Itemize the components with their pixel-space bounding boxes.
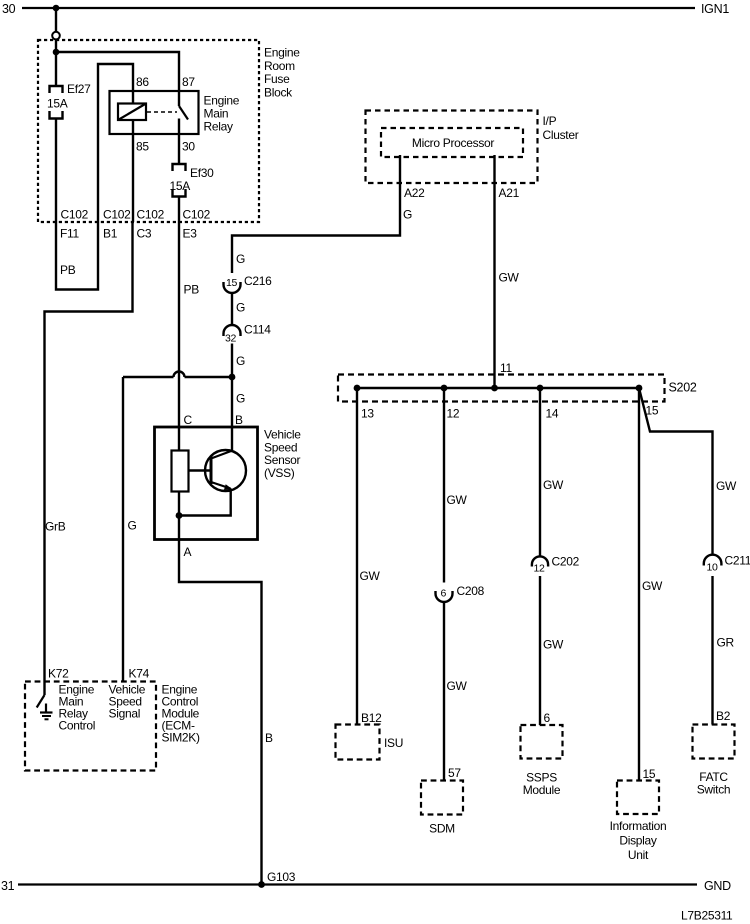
wire GW: splice 12 to C208 bbox=[443, 388, 445, 583]
svg-text:C: C bbox=[184, 413, 193, 427]
Engine Room Fuse Block dashed box bbox=[38, 40, 259, 222]
wire: relay pin 30 to fuse Ef30 bbox=[178, 134, 180, 164]
svg-text:Relay: Relay bbox=[204, 120, 233, 134]
svg-text:GW: GW bbox=[360, 569, 381, 583]
connector C102 pin F11 label bbox=[60, 208, 89, 241]
connector C102 pin E3 label bbox=[183, 208, 211, 241]
svg-text:Room: Room bbox=[264, 59, 295, 73]
wire: relay coil pin 85 to C102 C3 bbox=[132, 120, 134, 222]
FATC switch box bbox=[693, 725, 735, 759]
connector C102 pin C3 label bbox=[137, 208, 165, 241]
svg-text:C114: C114 bbox=[244, 323, 271, 337]
svg-text:GW: GW bbox=[447, 679, 468, 693]
svg-text:30: 30 bbox=[2, 2, 16, 16]
svg-text:Engine: Engine bbox=[204, 94, 240, 108]
svg-text:GW: GW bbox=[642, 579, 663, 593]
wire G: micro processor A22 down-left toward VSS bbox=[232, 155, 400, 273]
svg-text:(VSS): (VSS) bbox=[264, 466, 295, 480]
svg-text:15: 15 bbox=[646, 404, 659, 418]
svg-text:G: G bbox=[236, 392, 245, 406]
wire GW: micro processor A21 to splice S202 bbox=[493, 155, 495, 388]
svg-text:G: G bbox=[128, 519, 137, 533]
relay coil bbox=[118, 104, 146, 121]
splice junction 14 bbox=[537, 385, 544, 392]
svg-text:31: 31 bbox=[1, 879, 15, 893]
svg-text:30: 30 bbox=[182, 140, 195, 154]
svg-text:GW: GW bbox=[716, 479, 737, 493]
wire G: C114 to junction bbox=[231, 344, 233, 378]
wire: pin 86 feed bar from C102 B1 bbox=[98, 64, 133, 222]
svg-text:E3: E3 bbox=[183, 227, 198, 241]
ECM Vehicle Speed Signal label bbox=[109, 683, 146, 721]
svg-text:C216: C216 bbox=[244, 274, 272, 288]
connector bullet at fuse block entry bbox=[52, 32, 60, 40]
junction node in VSS bbox=[176, 512, 183, 519]
splice junction 12 bbox=[441, 385, 448, 392]
svg-text:Display: Display bbox=[619, 834, 657, 848]
svg-text:G: G bbox=[403, 208, 412, 222]
svg-text:B2: B2 bbox=[716, 709, 731, 723]
wire G: junction to ECM K74 with hop over PB bbox=[123, 372, 232, 682]
svg-text:10: 10 bbox=[707, 562, 719, 574]
svg-text:85: 85 bbox=[136, 140, 149, 154]
svg-text:Fuse: Fuse bbox=[264, 72, 290, 86]
splice junction 13 bbox=[354, 385, 361, 392]
splice bus wire bbox=[357, 387, 639, 390]
splice S202 dashed box bbox=[338, 375, 665, 402]
ECM Engine Main Relay Control label bbox=[59, 683, 96, 733]
svg-text:A21: A21 bbox=[499, 186, 520, 200]
svg-text:Main: Main bbox=[204, 107, 229, 121]
VSS name label bbox=[264, 428, 301, 480]
svg-text:PB: PB bbox=[60, 263, 76, 277]
svg-text:Engine: Engine bbox=[264, 46, 300, 60]
wire A: VSS out to ground rail bbox=[179, 516, 262, 885]
svg-text:13: 13 bbox=[361, 407, 374, 421]
fuse Ef30 bbox=[173, 164, 186, 197]
svg-text:GW: GW bbox=[447, 493, 468, 507]
resistor in VSS bbox=[172, 451, 189, 492]
svg-text:Signal: Signal bbox=[109, 707, 141, 721]
Engine Room Fuse Block label bbox=[264, 46, 300, 100]
svg-text:F11: F11 bbox=[60, 227, 80, 241]
svg-text:Module: Module bbox=[523, 783, 561, 797]
svg-text:C102: C102 bbox=[183, 208, 211, 222]
svg-text:57: 57 bbox=[448, 766, 461, 780]
ECM name label bbox=[162, 683, 201, 745]
wire: resistor to emitter junction bbox=[178, 492, 180, 516]
svg-text:Switch: Switch bbox=[697, 783, 731, 797]
svg-text:B: B bbox=[235, 413, 243, 427]
wire G: junction to VSS pin B bbox=[231, 377, 233, 451]
svg-text:C211: C211 bbox=[725, 554, 750, 568]
Vehicle Speed Sensor box bbox=[155, 427, 258, 540]
FATC switch label bbox=[697, 770, 731, 797]
splice junction 15 bbox=[636, 385, 643, 392]
relay name label bbox=[204, 94, 240, 134]
junction node inside fuse block bbox=[53, 49, 60, 56]
ECM internal switch to ground bbox=[37, 682, 45, 708]
svg-text:B1: B1 bbox=[103, 227, 118, 241]
wire PB: C102 E3 to VSS pin C bbox=[178, 222, 180, 427]
relay actuation dashed link bbox=[147, 111, 177, 113]
svg-text:G: G bbox=[236, 354, 245, 368]
relay K1 Engine Main Relay box bbox=[110, 91, 199, 134]
svg-text:Block: Block bbox=[264, 85, 293, 99]
wire: fuse Ef30 to connector C102 E3 bbox=[178, 197, 180, 223]
connector C208 pin 6 bbox=[436, 588, 453, 603]
relay pin 30 stub bbox=[178, 119, 180, 135]
SSPS module box bbox=[521, 725, 563, 759]
svg-text:Information: Information bbox=[610, 819, 667, 833]
connector C216 pin 15 bbox=[224, 277, 241, 293]
junction node above VSS bbox=[229, 374, 236, 381]
fuse Ef27 bbox=[50, 86, 63, 119]
svg-text:15A: 15A bbox=[47, 97, 68, 111]
svg-text:C3: C3 bbox=[137, 227, 152, 241]
wire PB: C102 F11 loop to C102 B1 bbox=[56, 222, 98, 290]
svg-text:GR: GR bbox=[717, 636, 735, 650]
svg-text:GrB: GrB bbox=[45, 520, 66, 534]
wire: power rail 30 bbox=[22, 7, 695, 9]
wire GR: C211 to FATC switch bbox=[711, 576, 713, 725]
SDM box bbox=[421, 781, 463, 815]
wire GW: splice 14 to C202 bbox=[539, 388, 541, 557]
wire: fuse Ef27 to connector C102 F11 bbox=[55, 119, 57, 223]
svg-text:A: A bbox=[184, 545, 192, 559]
wire: ground rail 31 bbox=[18, 883, 697, 885]
svg-text:Ef27: Ef27 bbox=[67, 82, 91, 96]
I/P Cluster label bbox=[543, 114, 579, 142]
SSPS module label bbox=[523, 771, 561, 798]
svg-text:G: G bbox=[236, 301, 245, 315]
svg-text:Ef30: Ef30 bbox=[190, 166, 214, 180]
svg-text:GW: GW bbox=[543, 478, 564, 492]
ground junction G103 bbox=[258, 881, 265, 888]
svg-text:12: 12 bbox=[447, 407, 460, 421]
svg-text:IGN1: IGN1 bbox=[701, 2, 729, 16]
svg-text:I/P: I/P bbox=[543, 114, 557, 128]
svg-text:Unit: Unit bbox=[628, 848, 649, 862]
svg-text:PB: PB bbox=[184, 283, 200, 297]
connector C102 pin B1 label bbox=[103, 208, 131, 241]
Micro Processor dashed box bbox=[381, 128, 523, 157]
svg-text:C208: C208 bbox=[457, 584, 485, 598]
svg-text:32: 32 bbox=[225, 333, 237, 345]
wire: rail 30 to fuse block bbox=[55, 8, 57, 32]
svg-text:15: 15 bbox=[643, 767, 656, 781]
wire GW: splice 13 to ISU bbox=[356, 388, 358, 725]
svg-text:11: 11 bbox=[500, 361, 512, 375]
svg-text:C202: C202 bbox=[552, 555, 580, 569]
svg-text:G103: G103 bbox=[267, 870, 296, 884]
svg-text:86: 86 bbox=[136, 75, 149, 89]
svg-text:6: 6 bbox=[441, 588, 447, 600]
wire GrB: C102 C3 down-left to ECM K72 bbox=[45, 222, 133, 682]
svg-text:ISU: ISU bbox=[384, 736, 403, 750]
svg-text:Control: Control bbox=[59, 719, 96, 733]
information display unit label bbox=[610, 819, 667, 862]
svg-text:K72: K72 bbox=[48, 667, 69, 681]
information display unit box bbox=[617, 781, 659, 815]
ground symbol in ECM bbox=[40, 704, 53, 720]
svg-text:B12: B12 bbox=[361, 711, 382, 725]
svg-text:C102: C102 bbox=[61, 208, 89, 222]
svg-text:Cluster: Cluster bbox=[543, 128, 579, 142]
connector C211 pin 10 bbox=[704, 555, 722, 574]
ISU box bbox=[336, 725, 380, 760]
wire: emitter to junction bbox=[179, 489, 231, 516]
svg-text:6: 6 bbox=[544, 711, 551, 725]
svg-text:C102: C102 bbox=[137, 208, 165, 222]
svg-text:15A: 15A bbox=[170, 179, 191, 193]
svg-text:GW: GW bbox=[499, 271, 520, 285]
wire GW: C208 to SDM bbox=[443, 602, 445, 781]
transistor Q1 bbox=[189, 450, 247, 491]
svg-text:GND: GND bbox=[704, 879, 731, 893]
svg-text:12: 12 bbox=[534, 563, 546, 575]
wire: junction to relay pin 87 bbox=[56, 52, 179, 106]
svg-text:G: G bbox=[236, 252, 245, 266]
svg-text:K74: K74 bbox=[129, 667, 150, 681]
svg-text:GW: GW bbox=[543, 638, 564, 652]
junction on rail 30 bbox=[53, 5, 60, 12]
svg-text:14: 14 bbox=[546, 407, 559, 421]
wire GW: splice 15 branch to C211 bbox=[639, 388, 713, 556]
relay switch blade bbox=[179, 106, 188, 120]
wire: entry down to junction and fuse Ef27 bbox=[55, 40, 57, 86]
svg-text:C102: C102 bbox=[103, 208, 131, 222]
svg-text:15: 15 bbox=[226, 277, 238, 289]
svg-text:A22: A22 bbox=[404, 186, 425, 200]
svg-text:SDM: SDM bbox=[429, 822, 455, 836]
svg-text:L7B25311: L7B25311 bbox=[681, 909, 733, 923]
connector C114 pin 32 bbox=[224, 325, 241, 345]
svg-text:S202: S202 bbox=[669, 381, 697, 395]
splice junction 11 bbox=[491, 385, 498, 392]
wire GW: splice 15 to information display unit bbox=[638, 388, 640, 781]
I/P Cluster dashed box bbox=[366, 111, 538, 184]
svg-text:B: B bbox=[265, 731, 273, 745]
wire GW: C202 to SSPS module bbox=[539, 576, 541, 725]
svg-text:SIM2K): SIM2K) bbox=[162, 731, 201, 745]
svg-text:Micro Processor: Micro Processor bbox=[412, 136, 494, 150]
wire G: C216 to C114 bbox=[231, 293, 233, 325]
wire: pin C into resistor bbox=[178, 427, 180, 451]
connector C202 pin 12 bbox=[532, 556, 548, 574]
svg-text:87: 87 bbox=[182, 75, 195, 89]
ECM dashed box bbox=[25, 682, 156, 771]
